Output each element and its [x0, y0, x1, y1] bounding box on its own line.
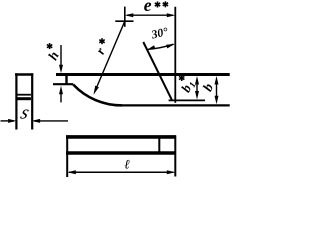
label e**	[144, 0, 168, 15]
main view: b1 extension line	[169, 99, 205, 101]
main view: step bottom line	[53, 83, 73, 85]
main view: radius curve	[73, 85, 122, 106]
main view: 30deg chamfer slant	[143, 42, 172, 100]
bottom view: top edge	[66, 135, 176, 139]
r* radius center cross	[115, 7, 133, 27]
label b1*	[178, 75, 198, 95]
svg-text:ℓ: ℓ	[124, 156, 130, 171]
h* dimension upper line with down arrow	[59, 45, 63, 73]
label r*	[92, 38, 108, 56]
r* leader line with arrow	[94, 21, 125, 95]
label h*	[45, 43, 62, 62]
b1* dimension line with arrows	[195, 76, 199, 100]
bottom view: divider line	[158, 137, 160, 153]
left view: thick inner line	[18, 97, 31, 100]
s dimension left segment with arrow	[1, 119, 17, 123]
main view: left end face	[65, 75, 67, 86]
e** dimension line with outward arrows	[125, 13, 176, 17]
bottom view: bottom edge	[66, 151, 176, 155]
s dimension right segment with arrow	[32, 119, 68, 123]
left view: thin inner line	[18, 94, 31, 96]
b dimension line with arrows	[215, 76, 219, 104]
main view: top line	[56, 73, 230, 76]
l dimension line with outward arrows	[67, 170, 175, 174]
main view: bottom line	[119, 104, 230, 106]
bottom view: left edge + extension	[66, 135, 68, 177]
left view: right side	[31, 73, 33, 129]
bottom view: right edge + extension	[174, 135, 176, 176]
svg-text:e: e	[144, 0, 152, 15]
left view: left side	[15, 73, 17, 129]
h* dimension lower line with up arrow	[59, 86, 63, 103]
left view: top edge	[15, 73, 33, 76]
main view: right vertical extension line	[174, 7, 176, 103]
30deg angle arc with arrows	[147, 44, 175, 50]
